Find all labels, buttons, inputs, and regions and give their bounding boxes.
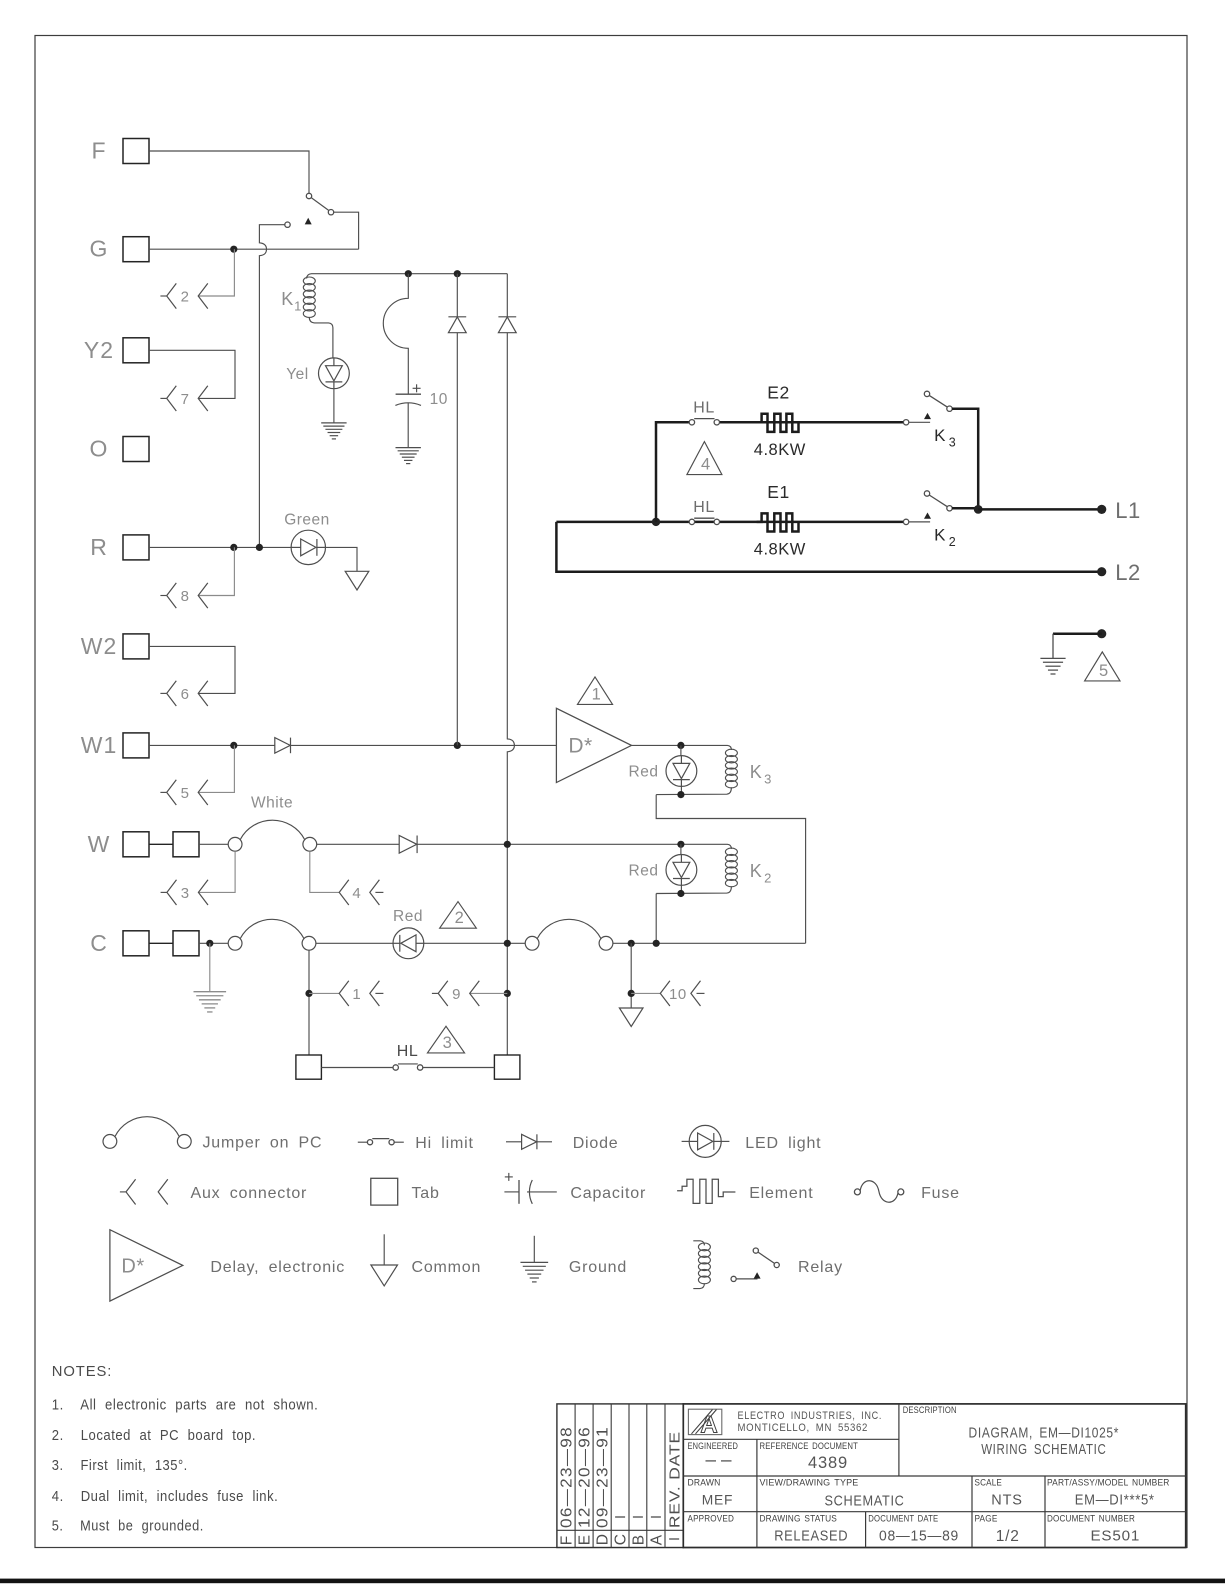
wire Y2 to aux 7 [149, 350, 235, 398]
svg-text:DIAGRAM, EM—DI1025*: DIAGRAM, EM—DI1025* [969, 1425, 1120, 1441]
node C diode-line junction [504, 940, 511, 947]
ground (capacitor) [396, 448, 421, 464]
svg-text:4. Dual limit, includes fuse: 4. Dual limit, includes fuse link. [52, 1488, 278, 1505]
node C bus b [653, 940, 660, 947]
svg-text:Jumper on PC: Jumper on PC [203, 1134, 323, 1151]
svg-text:B: B [630, 1534, 647, 1546]
diode D (W1 line) [275, 738, 291, 754]
svg-text:4.8KW: 4.8KW [754, 541, 806, 559]
svg-text:2. Located at PC board top.: 2. Located at PC board top. [52, 1427, 256, 1444]
svg-text:1: 1 [294, 299, 302, 314]
svg-text:4.8KW: 4.8KW [754, 441, 806, 459]
svg-text:1: 1 [352, 986, 361, 1003]
svg-text:Red: Red [393, 908, 423, 925]
svg-text:K: K [750, 762, 763, 782]
wire stub to aux 3 [198, 851, 235, 892]
aux connector 9 [432, 981, 479, 1006]
svg-text:ENGINEERED: ENGINEERED [688, 1441, 739, 1452]
jumper on PC (White) [228, 820, 316, 851]
LED light Yel [319, 358, 350, 389]
svg-text:PART/ASSY/MODEL NUMBER: PART/ASSY/MODEL NUMBER [1047, 1478, 1170, 1489]
svg-text:8: 8 [181, 588, 190, 605]
svg-text:4389: 4389 [808, 1454, 848, 1472]
svg-text:09—23—91: 09—23—91 [595, 1426, 612, 1528]
relay coil K3 [656, 745, 737, 794]
node diode line 2 on W [504, 841, 511, 848]
wire relay arm to G line [334, 212, 359, 249]
aux connector 6 [160, 681, 207, 706]
legend: capacitor symbol [504, 1173, 556, 1204]
svg-text:Red: Red [629, 862, 659, 879]
svg-text:DESCRIPTION: DESCRIPTION [903, 1405, 957, 1416]
svg-text:Element: Element [749, 1185, 813, 1202]
legend: common symbol [371, 1234, 398, 1286]
ground (Yel LED) [321, 423, 346, 439]
wire jumper to diode (W row) [317, 843, 400, 845]
aux connector 3 [161, 880, 208, 905]
svg-text:PAGE: PAGE [975, 1514, 998, 1525]
revision B date dash [633, 1516, 643, 1518]
svg-text:Red: Red [629, 764, 659, 781]
terminal box Y2 [84, 337, 149, 363]
label K1 [281, 289, 302, 314]
terminal box R [90, 534, 149, 560]
terminal box W1 [81, 732, 149, 758]
svg-text:08—15—89: 08—15—89 [879, 1527, 959, 1544]
wire K2 bottom to C bus [655, 894, 657, 944]
hi limit HL (bottom) [321, 1064, 494, 1070]
svg-text:2: 2 [181, 289, 190, 306]
node R junction a [230, 544, 237, 551]
terminal box F [91, 138, 149, 164]
svg-text:06—23—98: 06—23—98 [559, 1426, 576, 1528]
legend: delay electronic symbol [110, 1230, 183, 1301]
Electro Industries logo [688, 1409, 721, 1438]
svg-text:REFERENCE DOCUMENT: REFERENCE DOCUMENT [760, 1441, 859, 1452]
wire K3 bottom to C bus (right side) [656, 795, 805, 944]
wire down to earth ground [1052, 634, 1054, 659]
svg-text:4: 4 [701, 456, 711, 474]
bottom page edge bar [0, 1579, 1225, 1584]
terminal box W second tab [149, 832, 199, 857]
svg-text:W: W [88, 831, 111, 857]
aux connector 10 [660, 981, 704, 1006]
svg-text:F: F [91, 138, 106, 164]
svg-text:L2: L2 [1115, 560, 1140, 585]
svg-text:D*: D* [568, 735, 592, 758]
node C ground tap [206, 940, 213, 947]
LED light Red (C row, pointing left) [393, 928, 424, 959]
svg-text:2: 2 [455, 909, 465, 927]
terminal box C second tab [149, 931, 199, 956]
node capacitor branch [405, 270, 412, 277]
node C bus a [628, 940, 635, 947]
node E2 riser junction [652, 518, 660, 526]
wire stub to aux 2 [198, 249, 234, 296]
svg-text:D*: D* [121, 1256, 144, 1278]
svg-text:Relay: Relay [798, 1259, 843, 1276]
label K2 [750, 861, 772, 886]
svg-text:2: 2 [949, 535, 956, 549]
diode branch 1 (vertical, pointing up) [448, 274, 466, 746]
wire L1 [978, 508, 1101, 511]
wire earth branch [1053, 632, 1102, 635]
svg-text:W2: W2 [81, 633, 118, 659]
aux connector 4 [339, 880, 383, 905]
svg-text:3: 3 [443, 1034, 453, 1052]
svg-text:EM—DI***5*: EM—DI***5* [1075, 1491, 1155, 1508]
capacitor 10 [395, 384, 421, 405]
terminal box C [90, 930, 149, 956]
svg-text:Aux connector: Aux connector [191, 1185, 308, 1202]
svg-text:REV. DATE: REV. DATE [667, 1431, 684, 1528]
svg-text:ES501: ES501 [1090, 1527, 1140, 1544]
wire E2 branch [720, 421, 904, 424]
svg-text:WIRING SCHEMATIC: WIRING SCHEMATIC [981, 1442, 1106, 1458]
svg-text:MONTICELLO, MN 55362: MONTICELLO, MN 55362 [738, 1422, 869, 1434]
aux connector 1 [339, 981, 383, 1006]
legend: diode symbol [506, 1134, 552, 1149]
svg-text:E2: E2 [767, 383, 789, 403]
value engineered dashes [706, 1460, 732, 1462]
LED light Green [291, 530, 325, 564]
wire Yel LED to ground [333, 389, 335, 423]
terminal box W2 [81, 633, 149, 659]
svg-text:DOCUMENT NUMBER: DOCUMENT NUMBER [1047, 1514, 1135, 1525]
jumper on PC (C row) [228, 919, 316, 950]
wire NC contact down to R line (hops over G wire) [259, 225, 284, 548]
svg-text:G: G [90, 236, 109, 262]
legend: relay symbol [693, 1241, 779, 1289]
svg-text:C: C [613, 1533, 630, 1545]
wire Green LED to common [324, 547, 357, 571]
relay NC contact with triangle [285, 218, 312, 228]
wire W1 row [149, 744, 275, 746]
svg-text:SCALE: SCALE [975, 1478, 1003, 1489]
svg-text:5: 5 [1099, 662, 1109, 680]
svg-text:3. First limit, 135°.: 3. First limit, 135°. [52, 1457, 188, 1474]
wire capacitor to ground [407, 403, 409, 447]
flag note 4 [687, 442, 722, 475]
svg-text:Tab: Tab [412, 1185, 440, 1202]
svg-text:Fuse: Fuse [921, 1185, 960, 1202]
aux connector 7 [160, 386, 207, 411]
svg-text:E1: E1 [767, 482, 789, 502]
wire W2 to aux 6 [149, 646, 235, 693]
terminal box G [90, 236, 149, 262]
svg-text:HL: HL [397, 1043, 418, 1060]
legend: tab symbol [371, 1178, 398, 1205]
wire W to jumper [199, 843, 228, 845]
hi limit HL (E2 branch) [689, 419, 719, 425]
tab square right (hi-limit) [494, 1055, 520, 1079]
wire C to jumper [199, 942, 228, 944]
svg-text:1/2: 1/2 [996, 1528, 1020, 1545]
node G junction [230, 246, 237, 253]
svg-text:Ground: Ground [569, 1259, 627, 1276]
node L1 terminal [1097, 505, 1106, 514]
wire Red LED to right jumper [424, 942, 525, 944]
svg-text:MEF: MEF [702, 1492, 734, 1507]
ground (mains earth) [1040, 658, 1065, 674]
svg-text:K: K [281, 289, 294, 309]
svg-text:3: 3 [764, 772, 772, 787]
diode branch 2 (vertical, pointing up; hops W1 wire) [498, 274, 516, 1055]
op-amp D* delay, electronic [556, 708, 631, 782]
svg-text:VIEW/DRAWING TYPE: VIEW/DRAWING TYPE [760, 1478, 859, 1489]
common symbol (Green LED) [345, 571, 369, 590]
wire to aux 1 [309, 992, 339, 994]
svg-text:Hi limit: Hi limit [415, 1135, 473, 1152]
svg-text:Common: Common [412, 1259, 482, 1276]
element E2 [757, 414, 799, 432]
node R junction b [256, 544, 263, 551]
element E1 [757, 513, 799, 531]
wire R row [149, 546, 292, 548]
svg-text:HL: HL [693, 400, 714, 417]
relay contact K3 (power) [903, 391, 952, 425]
label K2 (power) [934, 526, 956, 550]
label K3 (power) [934, 426, 956, 450]
revision C date dash [615, 1516, 625, 1518]
aux connector 2 [160, 283, 207, 308]
relay contact arm (F pole) [306, 193, 333, 215]
ground (C terminal) [194, 992, 227, 1012]
svg-text:7: 7 [181, 391, 190, 408]
svg-text:L1: L1 [1115, 498, 1140, 523]
svg-text:DRAWN: DRAWN [688, 1478, 721, 1489]
node earth branch [1097, 629, 1106, 638]
svg-text:10: 10 [669, 986, 687, 1003]
svg-text:Y2: Y2 [84, 337, 114, 363]
node aux1 junction [305, 990, 312, 997]
label K3 [750, 762, 772, 787]
svg-text:DRAWING STATUS: DRAWING STATUS [760, 1514, 838, 1525]
legend: aux connector symbol [120, 1179, 168, 1204]
svg-text:Green: Green [284, 512, 330, 529]
jumper on PC (C row right) [525, 919, 613, 950]
svg-text:E: E [577, 1534, 594, 1546]
svg-text:1. All electronic parts are n: 1. All electronic parts are not shown. [52, 1396, 319, 1413]
legend: fuse symbol [854, 1181, 903, 1202]
wire C to chassis ground [209, 943, 211, 991]
wire to aux 10 [631, 992, 660, 994]
svg-text:K: K [934, 526, 946, 545]
svg-text:Diode: Diode [573, 1135, 619, 1152]
wire C bus to aux 10 node [630, 943, 632, 1008]
node aux9 junction [504, 990, 511, 997]
svg-text:3: 3 [949, 436, 956, 450]
common symbol (below aux 10) [619, 1008, 643, 1027]
svg-text:White: White [251, 795, 293, 812]
svg-text:10: 10 [430, 391, 448, 408]
revision A date dash [651, 1516, 661, 1518]
node K2 bottom [677, 890, 684, 897]
svg-text:O: O [90, 436, 109, 462]
svg-text:Capacitor: Capacitor [570, 1185, 646, 1202]
aux connector 8 [160, 583, 207, 608]
svg-text:RELEASED: RELEASED [774, 1527, 848, 1544]
node L1 branch [974, 505, 983, 514]
revision letter dash [669, 1538, 679, 1540]
svg-text:APPROVED: APPROVED [688, 1514, 735, 1525]
legend: hi limit symbol [358, 1139, 404, 1145]
node K3 top [677, 742, 684, 749]
node K2 top [677, 841, 684, 848]
svg-text:F: F [559, 1535, 576, 1546]
node K3 bottom [677, 791, 684, 798]
flag note 3 [427, 1026, 464, 1053]
legend: ground symbol [520, 1236, 548, 1282]
svg-text:LED light: LED light [745, 1135, 821, 1152]
svg-text:NOTES:: NOTES: [52, 1364, 112, 1380]
svg-text:W1: W1 [81, 732, 118, 758]
wire stub to aux 5 [198, 745, 234, 792]
svg-text:1: 1 [592, 685, 602, 703]
wire F to relay contact [149, 151, 309, 193]
wire with fuse loop to capacitor [383, 274, 408, 395]
svg-text:D: D [595, 1533, 612, 1545]
terminal box O [90, 436, 149, 462]
relay contact K2 (power) [903, 491, 952, 525]
svg-text:NTS: NTS [991, 1493, 1022, 1509]
svg-text:HL: HL [693, 499, 714, 516]
svg-text:DOCUMENT DATE: DOCUMENT DATE [868, 1514, 938, 1525]
wire G row [149, 248, 359, 250]
svg-text:5: 5 [181, 785, 190, 802]
relay coil K2 [656, 844, 737, 893]
revision table grid [557, 1404, 683, 1548]
flag note 5 [1085, 652, 1120, 681]
aux connector 5 [160, 780, 207, 805]
wire riser to E2 branch [656, 422, 689, 522]
svg-text:ELECTRO INDUSTRIES, INC.: ELECTRO INDUSTRIES, INC. [738, 1410, 883, 1422]
wire delay output to K3 [632, 744, 728, 746]
svg-text:C: C [90, 930, 108, 956]
wire stub to aux 8 [198, 547, 234, 595]
svg-text:4: 4 [352, 885, 361, 902]
LED light Red (K3) [666, 745, 697, 794]
legend: jumper on PC symbol [103, 1117, 191, 1149]
wire L2 [556, 522, 1101, 572]
svg-text:3: 3 [181, 885, 190, 902]
svg-text:6: 6 [181, 686, 190, 703]
wire E1 feed from L2 riser [556, 521, 903, 524]
wire diode to K2 [417, 843, 727, 845]
node W1 junction [230, 742, 237, 749]
node diode line junction on W1 [454, 742, 461, 749]
wire diode to delay input [291, 744, 557, 746]
relay coil K1 [303, 274, 333, 358]
node aux10 junction [628, 990, 635, 997]
svg-text:5. Must be grounded.: 5. Must be grounded. [52, 1518, 204, 1535]
wire K1 top bus [312, 273, 508, 275]
svg-text:SCHEMATIC: SCHEMATIC [825, 1493, 905, 1510]
wire C bus right [613, 942, 806, 944]
wire K3 arm to L1 riser [952, 409, 978, 510]
node L2 terminal [1097, 567, 1106, 576]
node diode branch 1 [454, 270, 461, 277]
svg-text:2: 2 [764, 871, 772, 886]
tab square left (hi-limit) [296, 1055, 322, 1079]
terminal box W [88, 831, 149, 857]
wire jumper to Red LED (C row) [316, 942, 393, 944]
title block grid [683, 1404, 1185, 1548]
svg-text:K: K [750, 861, 763, 881]
legend: LED light symbol [682, 1125, 730, 1157]
svg-text:Yel: Yel [286, 366, 308, 383]
wire K2 arm to L1 node [952, 508, 978, 509]
flag note 2 [440, 902, 477, 929]
LED light Red (K2) [666, 844, 697, 893]
svg-text:12—20—96: 12—20—96 [577, 1426, 594, 1528]
wire stub to aux 4 [310, 851, 339, 892]
diode D (W row) [399, 836, 417, 854]
svg-text:Delay, electronic: Delay, electronic [210, 1259, 345, 1276]
svg-text:A: A [648, 1534, 665, 1546]
svg-text:R: R [90, 534, 108, 560]
wire to aux 9 [470, 992, 508, 994]
svg-text:9: 9 [452, 986, 461, 1003]
flag note 1 [577, 677, 612, 705]
legend: element symbol [677, 1179, 735, 1203]
wire stub jumper to aux 1 and tab [308, 950, 310, 1055]
svg-text:K: K [934, 426, 946, 445]
hi limit HL (E1 branch) [689, 518, 719, 524]
